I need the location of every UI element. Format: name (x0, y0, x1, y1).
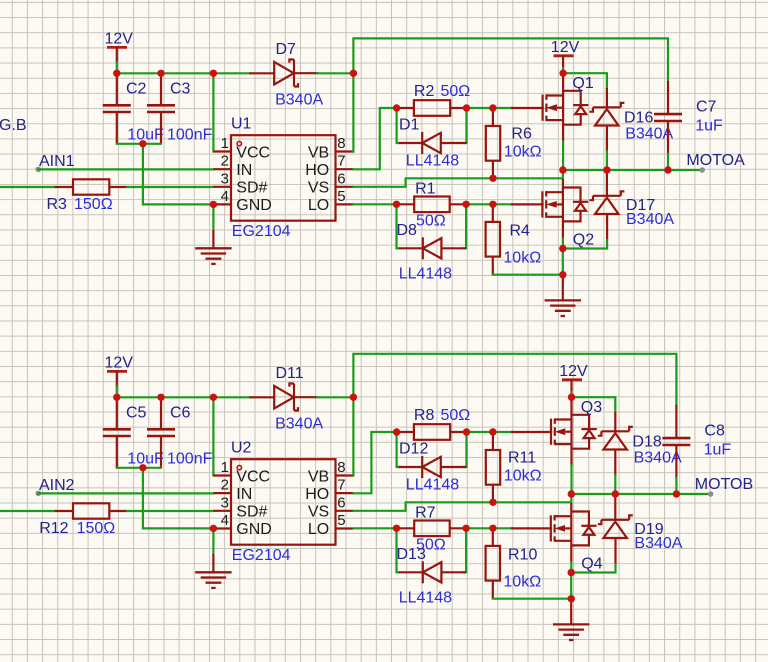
power 12V (C2 rail) (105, 31, 134, 48)
junction (462, 201, 469, 208)
resistor R2 (397, 100, 467, 116)
svg-text:LO: LO (308, 521, 329, 538)
wire (117, 467, 161, 469)
wire (562, 68, 564, 73)
ground (under U1) (195, 248, 231, 264)
junction (113, 394, 120, 401)
wire (354, 527, 397, 529)
ground (under Q4) (553, 624, 589, 640)
wire (143, 468, 214, 529)
svg-text:D16: D16 (624, 110, 653, 127)
wire (563, 73, 607, 88)
svg-text:VB: VB (308, 144, 329, 161)
svg-text:VCC: VCC (236, 144, 270, 161)
diode D13 LL4148 (399, 561, 466, 583)
svg-text:6: 6 (337, 494, 345, 511)
net port AIN2 (36, 491, 42, 497)
wire (570, 573, 572, 599)
svg-text:EG2104: EG2104 (232, 547, 291, 564)
junction (139, 464, 146, 471)
svg-text:10kΩ: 10kΩ (503, 573, 541, 590)
svg-text:5: 5 (337, 512, 345, 529)
wire (D7 anode lead) (250, 72, 274, 74)
svg-text:B340A: B340A (634, 450, 682, 467)
ground (under Q2) (545, 300, 581, 316)
junction (350, 70, 357, 77)
U1 body (231, 135, 336, 221)
U2 pin 7 (HO) (305, 477, 353, 503)
capacitor C6 (147, 397, 175, 468)
svg-text:3: 3 (221, 494, 229, 511)
ground (under U2) (195, 572, 231, 588)
junction (210, 201, 217, 208)
wire (Q2 gate lead) (512, 203, 543, 205)
wire (Q3 gate lead) (512, 431, 551, 433)
junction (489, 201, 496, 208)
svg-text:C7: C7 (696, 99, 717, 116)
svg-text:4: 4 (221, 188, 229, 205)
wire (397, 432, 400, 467)
junction (568, 595, 575, 602)
wire (0, 510, 55, 512)
svg-text:VS: VS (308, 180, 329, 197)
U2 pin 6 (VS) (308, 494, 354, 520)
wire (38, 492, 213, 494)
svg-text:10uF: 10uF (127, 451, 164, 468)
svg-text:1: 1 (221, 135, 229, 152)
wire (353, 38, 668, 151)
svg-text:C6: C6 (170, 405, 191, 422)
svg-text:10kΩ: 10kΩ (503, 249, 541, 266)
svg-text:8: 8 (337, 135, 345, 152)
wire (354, 494, 572, 511)
wire (12V stem) (116, 371, 118, 386)
wire (562, 141, 564, 170)
svg-text:1uF: 1uF (704, 442, 732, 459)
resistor R8 (397, 424, 467, 440)
U2 pin 2 (IN) (213, 477, 252, 503)
wire (12V stem) (570, 380, 572, 392)
junction (462, 525, 469, 532)
junction (489, 175, 496, 182)
junction (489, 499, 496, 506)
svg-text:R8: R8 (414, 407, 435, 424)
IC U1 EG2104 (213, 116, 353, 240)
svg-text:50Ω: 50Ω (441, 407, 471, 424)
junction (559, 271, 566, 278)
svg-text:150Ω: 150Ω (77, 520, 116, 537)
svg-text:10uF: 10uF (127, 127, 164, 144)
svg-text:C2: C2 (126, 81, 147, 98)
svg-text:HO: HO (305, 486, 329, 503)
wire (570, 465, 572, 494)
svg-text:C5: C5 (126, 405, 147, 422)
wire (493, 274, 563, 276)
wire (212, 397, 214, 475)
svg-text:LL4148: LL4148 (399, 265, 452, 282)
U1 pin 8 (VB) (308, 135, 354, 161)
wire (354, 203, 397, 205)
power 12V (Q3 rail) (559, 363, 588, 380)
junction (664, 166, 671, 173)
wire (570, 392, 572, 397)
wire (D7 cathode lead) (294, 72, 317, 74)
capacitor C3 (147, 73, 175, 144)
junction (568, 490, 575, 497)
svg-text:EG2104: EG2104 (232, 223, 291, 240)
svg-text:50Ω: 50Ω (441, 83, 471, 100)
resistor R4 (486, 204, 500, 274)
svg-text:VCC: VCC (236, 468, 270, 485)
junction (393, 525, 400, 532)
U1 pin 1 (VCC) (213, 135, 270, 161)
junction (210, 70, 217, 77)
junction (559, 166, 566, 173)
wire (563, 240, 607, 248)
svg-text:VS: VS (308, 504, 329, 521)
U2 body (231, 459, 336, 545)
svg-text:B340A: B340A (625, 126, 673, 143)
wire (493, 598, 571, 600)
junction (568, 569, 575, 576)
junction (463, 428, 470, 435)
power 12V (C5 rail) (105, 355, 134, 372)
svg-text:R12: R12 (39, 520, 68, 537)
net port MOTOB (708, 491, 714, 497)
wire (143, 144, 214, 205)
U1 pin 7 (HO) (305, 153, 353, 179)
svg-text:LL4148: LL4148 (406, 153, 459, 170)
svg-text:C3: C3 (170, 81, 191, 98)
wire (212, 528, 214, 555)
svg-text:HO: HO (305, 162, 329, 179)
junction (489, 525, 496, 532)
svg-text:100nF: 100nF (167, 127, 213, 144)
diode D7 B340A (274, 59, 298, 86)
power 12V (Q1 rail) (551, 39, 580, 56)
capacitor C7 (654, 81, 682, 154)
junction (393, 201, 400, 208)
wire (212, 204, 214, 231)
wire (gnd stem) (562, 275, 564, 301)
svg-text:Q4: Q4 (581, 556, 602, 573)
svg-text:Q2: Q2 (573, 232, 594, 249)
wire (563, 169, 702, 171)
svg-text:AIN2: AIN2 (39, 477, 75, 494)
wire (38, 168, 213, 170)
svg-text:B340A: B340A (634, 535, 682, 552)
U2 pin1 indicator (237, 465, 241, 469)
svg-text:GND: GND (236, 521, 272, 538)
diode D16 B340A (589, 88, 624, 151)
svg-text:B340A: B340A (275, 415, 323, 432)
wire (117, 72, 251, 74)
svg-text:12V: 12V (105, 355, 134, 372)
junction (157, 394, 164, 401)
svg-text:12V: 12V (551, 39, 580, 56)
wire (570, 562, 572, 572)
junction (113, 70, 120, 77)
svg-text:10kΩ: 10kΩ (504, 144, 542, 161)
wire (354, 432, 397, 493)
svg-text:D12: D12 (399, 441, 428, 458)
U2 pin 8 (VB) (308, 459, 354, 485)
wire (466, 527, 512, 529)
svg-text:LO: LO (308, 197, 329, 214)
diode D19 B340A (598, 495, 633, 564)
svg-text:MOTOB: MOTOB (695, 476, 753, 493)
wire (463, 528, 466, 572)
wire (317, 396, 353, 398)
junction (210, 394, 217, 401)
U1 pin1 indicator (237, 141, 241, 145)
wire (467, 107, 513, 109)
svg-text:D11: D11 (276, 365, 304, 382)
svg-text:IN: IN (236, 162, 252, 179)
wire (463, 204, 466, 248)
svg-text:Q3: Q3 (581, 399, 602, 416)
svg-text:R1: R1 (415, 180, 436, 197)
svg-text:R11: R11 (508, 450, 536, 467)
U2 pin 1 (VCC) (213, 459, 270, 485)
transistor Q4 (N-MOSFET) (551, 503, 597, 562)
wire (12V stem) (562, 56, 564, 68)
junction (489, 104, 496, 111)
U2 pin 5 (LO) (308, 512, 354, 538)
svg-text:D1: D1 (399, 117, 420, 134)
junction (489, 428, 496, 435)
wire (397, 108, 400, 143)
wire (gnd stem) (212, 231, 214, 248)
U1 pin 3 (SD#) (213, 170, 267, 196)
junction (210, 525, 217, 532)
svg-text:LL4148: LL4148 (399, 589, 452, 606)
diode D1 LL4148 (399, 132, 467, 154)
svg-text:150Ω: 150Ω (74, 196, 113, 213)
IC U2 EG2104 (213, 440, 353, 564)
junction (139, 140, 146, 147)
svg-text:3: 3 (221, 170, 229, 187)
svg-text:U2: U2 (231, 440, 252, 457)
svg-text:IN: IN (236, 486, 252, 503)
wire (467, 431, 513, 433)
transistor Q3 (N-MOSFET) (551, 397, 597, 465)
wire (Q1 gate lead) (512, 107, 543, 109)
junction (673, 490, 680, 497)
diode D11 B340A (274, 384, 298, 411)
resistor R7 (397, 521, 467, 537)
wire (675, 478, 677, 494)
svg-text:7: 7 (337, 153, 345, 170)
net port MOTOA (699, 167, 705, 173)
wire (464, 432, 467, 467)
wire (127, 186, 213, 188)
svg-text:AIN1: AIN1 (39, 153, 75, 170)
svg-text:1uF: 1uF (695, 118, 723, 135)
svg-text:VB: VB (308, 468, 329, 485)
wire (12V stem) (116, 47, 118, 62)
wire (212, 73, 214, 151)
wire (317, 72, 353, 74)
wire (116, 62, 118, 73)
junction (157, 70, 164, 77)
junction (559, 70, 566, 77)
svg-text:R7: R7 (415, 504, 436, 521)
diode D12 LL4148 (399, 456, 467, 478)
U2 pin 3 (SD#) (213, 494, 267, 520)
svg-text:U1: U1 (231, 116, 252, 133)
wire (571, 493, 710, 495)
svg-text:R10: R10 (508, 546, 537, 563)
svg-text:10kΩ: 10kΩ (504, 468, 542, 485)
svg-text:1: 1 (221, 459, 229, 476)
capacitor C8 (662, 405, 690, 478)
wire (0, 186, 55, 188)
resistor R6 (486, 108, 500, 178)
svg-text:7: 7 (337, 477, 345, 494)
diode D8 LL4148 (399, 237, 466, 259)
svg-text:GND: GND (236, 197, 272, 214)
capacitor C2 (103, 73, 131, 144)
junction (603, 166, 610, 173)
U1 pin 2 (IN) (213, 153, 252, 179)
wire (562, 238, 564, 248)
wire (117, 143, 161, 145)
wire (354, 170, 563, 187)
wire (572, 397, 616, 412)
U1 pin 6 (VS) (308, 170, 354, 196)
svg-text:C8: C8 (704, 423, 725, 440)
svg-text:8: 8 (337, 459, 345, 476)
wire (397, 204, 400, 248)
wire (117, 396, 251, 398)
svg-text:50Ω: 50Ω (416, 212, 446, 229)
junction (393, 104, 400, 111)
svg-text:R3: R3 (47, 196, 68, 213)
svg-text:12V: 12V (105, 31, 134, 48)
svg-text:MOTOA: MOTOA (686, 152, 745, 169)
junction (393, 428, 400, 435)
wire (127, 510, 213, 512)
svg-text:6: 6 (337, 170, 345, 187)
svg-text:D13: D13 (397, 546, 426, 563)
wire (606, 151, 608, 170)
transistor Q1 (N-MOSFET) (543, 73, 589, 141)
U2 pin 4 (GND) (213, 512, 271, 538)
resistor R10 (486, 528, 500, 598)
svg-text:LL4148: LL4148 (406, 477, 459, 494)
svg-text:2: 2 (221, 477, 229, 494)
wire (571, 564, 615, 572)
wire (397, 528, 400, 572)
svg-text:4: 4 (221, 512, 229, 529)
wire (466, 203, 512, 205)
resistor R12 (55, 503, 127, 518)
wire (667, 154, 669, 170)
junction (350, 394, 357, 401)
svg-text:B340A: B340A (275, 91, 323, 108)
svg-text:R6: R6 (511, 126, 532, 143)
resistor R1 (397, 197, 467, 213)
svg-text:5: 5 (337, 188, 345, 205)
wire (614, 475, 616, 494)
wire (D11 cathode lead) (294, 396, 317, 398)
svg-text:SD#: SD# (236, 180, 267, 197)
diode D18 B340A (598, 412, 633, 475)
wire (354, 108, 397, 169)
svg-text:SD#: SD# (236, 504, 267, 521)
svg-text:G.B: G.B (0, 117, 27, 134)
wire (464, 108, 467, 143)
wire (Q4 gate lead) (512, 527, 551, 529)
svg-text:D18: D18 (632, 434, 661, 451)
U1 pin 5 (LO) (308, 188, 354, 214)
svg-text:2: 2 (221, 153, 229, 170)
resistor R11 (486, 432, 500, 502)
svg-text:B340A: B340A (626, 211, 674, 228)
wire (116, 386, 118, 397)
svg-text:Q1: Q1 (572, 75, 593, 92)
wire (D11 anode lead) (250, 396, 274, 398)
U1 pin 4 (GND) (213, 188, 271, 214)
junction (612, 490, 619, 497)
net port AIN1 (36, 167, 42, 173)
svg-text:R2: R2 (414, 83, 435, 100)
svg-text:100nF: 100nF (167, 451, 213, 468)
svg-text:12V: 12V (559, 363, 588, 380)
wire (gnd stem) (212, 555, 214, 572)
capacitor C5 (103, 397, 131, 468)
junction (568, 394, 575, 401)
wire (gnd stem) (570, 599, 572, 625)
wire (353, 354, 676, 476)
junction (559, 245, 566, 252)
transistor Q2 (N-MOSFET) (542, 179, 588, 238)
resistor R3 (55, 179, 127, 194)
svg-text:D7: D7 (276, 41, 297, 58)
junction (463, 104, 470, 111)
diode D17 B340A (589, 171, 624, 240)
svg-text:R4: R4 (510, 222, 531, 239)
wire (562, 249, 564, 275)
svg-text:D8: D8 (397, 222, 418, 239)
